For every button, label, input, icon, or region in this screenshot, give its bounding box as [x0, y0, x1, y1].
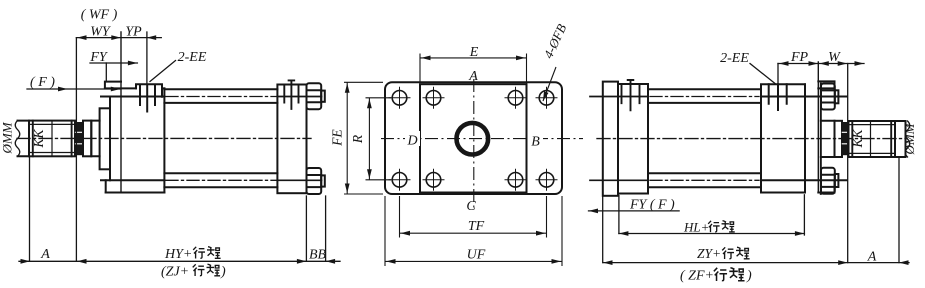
- rear port lines: [284, 80, 298, 109]
- extension line BB right: [325, 196, 327, 261]
- 2-EE leader: [750, 64, 775, 84]
- svg-text:KK: KK: [31, 129, 46, 149]
- main axis centerline: [17, 137, 311, 139]
- extension rear face: [602, 196, 604, 263]
- svg-text:WY: WY: [90, 25, 112, 40]
- svg-text:D: D: [406, 134, 417, 149]
- gland retainer plate: [100, 108, 110, 169]
- tie rod bottom lines: [164, 173, 277, 187]
- bottom tie rod stud: [835, 174, 839, 187]
- dim line E: [420, 57, 527, 59]
- svg-text:ØMM: ØMM: [902, 122, 917, 155]
- dim line FP/W: [778, 63, 864, 65]
- piston rod thread box KK: [849, 121, 896, 157]
- dim line R: [368, 98, 370, 180]
- top boss: [818, 81, 834, 88]
- flange front face line + extension above: [120, 32, 122, 193]
- svg-text:( WF ): ( WF ): [81, 8, 118, 23]
- svg-text:W: W: [828, 50, 841, 65]
- dim line TF: [400, 232, 547, 234]
- svg-text:ZY+: ZY+: [697, 246, 721, 261]
- svg-text:): ): [746, 269, 752, 284]
- thread minor lines: [29, 124, 75, 152]
- bottom tie rod nut: [821, 168, 835, 194]
- svg-text:BB: BB: [309, 248, 327, 263]
- svg-text:C: C: [466, 199, 476, 214]
- head square: [420, 84, 527, 192]
- rod tip box: [18, 121, 30, 157]
- svg-text:2-EE: 2-EE: [178, 50, 207, 65]
- rod tip chamfer marks: [905, 121, 910, 157]
- bolt hole bottom-left: [392, 173, 407, 188]
- thread end line: [870, 121, 872, 157]
- main axis centerline: [597, 138, 907, 140]
- bolt hole top-right: [539, 91, 554, 106]
- rod collar: [835, 121, 843, 157]
- extension line rod tip: [29, 157, 31, 261]
- head top line: [105, 87, 136, 89]
- svg-text:ØMM: ØMM: [0, 121, 15, 154]
- rod circle (thick ring): [457, 123, 489, 155]
- 2-EE leader line: [150, 61, 176, 82]
- FE extension lines: [344, 82, 383, 194]
- svg-text:HY+: HY+: [164, 247, 192, 262]
- tie rod bottom centerline: [166, 179, 276, 181]
- svg-text:KK: KK: [850, 129, 865, 149]
- bolt hole bottom-right: [539, 173, 554, 188]
- extension rod tip: [898, 158, 900, 263]
- head bottom line: [106, 192, 165, 194]
- svg-text:A: A: [40, 247, 50, 262]
- tie rod top lines: [648, 89, 761, 103]
- dim line FY(F): [589, 210, 680, 212]
- flange plate outline: [385, 82, 562, 194]
- locknut (hatched): [842, 123, 849, 155]
- svg-text:(ZJ+: (ZJ+: [161, 265, 189, 280]
- dim line ZY/A: [603, 262, 909, 264]
- gland retainer face: [820, 84, 822, 194]
- extension HL right: [803, 195, 805, 235]
- tie rod bottom lines: [648, 173, 761, 187]
- piston rod thread box KK: [29, 121, 75, 157]
- rear head: [618, 84, 648, 194]
- head right face: [163, 88, 165, 192]
- svg-text:R: R: [350, 134, 365, 144]
- svg-text:B: B: [531, 135, 540, 150]
- dim line HL: [619, 233, 805, 235]
- svg-text:( ZF+: ( ZF+: [680, 269, 714, 284]
- front port lines: [769, 84, 787, 110]
- E extension lines: [420, 54, 527, 85]
- top boss on gland: [105, 82, 121, 89]
- rear port lines: [622, 80, 640, 110]
- tie rod top centerline: [650, 96, 799, 98]
- FP extension at port center: [777, 64, 779, 84]
- dim line FY: [90, 62, 137, 64]
- bottom boss: [818, 180, 834, 192]
- svg-text:TF: TF: [468, 219, 485, 234]
- tie rod hole bottom-right: [508, 173, 523, 188]
- svg-text:A: A: [867, 250, 877, 265]
- rod tip box: [895, 121, 906, 157]
- rear head: [277, 85, 306, 194]
- thread end line: [51, 121, 53, 157]
- rear cap: [603, 82, 618, 196]
- plain rod section: [91, 121, 99, 157]
- vertical centerline: [473, 79, 475, 209]
- extension cap right: [618, 196, 620, 234]
- dim line WY/YP: [76, 37, 161, 39]
- tie rod top centerline: [166, 96, 276, 98]
- svg-text:E: E: [469, 45, 479, 60]
- left view arrows: [77, 35, 87, 40]
- dim line (F): [27, 88, 120, 90]
- tie rod hole top-right: [508, 91, 523, 106]
- rod collar: [83, 121, 91, 157]
- middle view arrows: [421, 56, 431, 61]
- tie rod bottom centerline: [650, 179, 799, 181]
- 4-ØFB leader: [543, 67, 556, 101]
- dim line UF: [385, 260, 562, 262]
- dim line FE: [346, 82, 348, 194]
- rod tip thread run-out wave: [15, 121, 20, 157]
- extension line BB left: [305, 196, 307, 261]
- front port 2-EE: [136, 84, 162, 111]
- horizontal centerline: [381, 138, 583, 140]
- top tie rod stud: [835, 90, 839, 103]
- plain rod section: [821, 121, 835, 157]
- flange verticals: [109, 97, 111, 181]
- TF extension lines: [400, 196, 547, 238]
- right view arrows: [779, 61, 789, 66]
- svg-text:2-EE: 2-EE: [720, 51, 749, 66]
- svg-text:( F ): ( F ): [30, 75, 55, 90]
- bolt hole top-left: [392, 91, 407, 106]
- svg-text:FE: FE: [330, 129, 345, 147]
- extension line at thread end (full height): [75, 38, 77, 262]
- svg-text:FY: FY: [89, 50, 109, 65]
- bottom tie rod stud: [321, 175, 325, 186]
- bottom boss: [105, 180, 107, 192]
- top tie rod stud: [321, 91, 325, 102]
- flange right face + extension above: [817, 62, 819, 193]
- svg-text:FP: FP: [790, 50, 809, 65]
- tie rod hole top-left: [426, 91, 441, 106]
- svg-text:FY ( F ): FY ( F ): [629, 198, 675, 213]
- head/flange junction: [804, 84, 806, 192]
- thread minor lines: [849, 125, 896, 154]
- flange horizontal lines: [101, 97, 164, 181]
- hole cross marks: [389, 87, 558, 191]
- tie rod lines through rear cap/head: [590, 97, 648, 181]
- bottom dim line: [19, 260, 340, 262]
- svg-text:): ): [220, 265, 226, 280]
- svg-text:UF: UF: [467, 248, 486, 263]
- locknut (hatched): [75, 123, 83, 155]
- top tie rod nut: [307, 83, 322, 109]
- tie rod hole bottom-left: [426, 173, 441, 188]
- bottom tie rod nut: [307, 168, 322, 194]
- FY extension tick: [105, 63, 107, 82]
- extension at thread start (full): [847, 64, 849, 263]
- tie rod top lines: [164, 89, 277, 103]
- R extension lines: [366, 98, 392, 180]
- top tie rod nut: [821, 84, 835, 110]
- UF extension lines: [385, 196, 562, 266]
- extension line port center: [146, 32, 148, 84]
- svg-text:A: A: [468, 69, 478, 84]
- flange lines: [761, 97, 847, 181]
- front head: [761, 84, 805, 192]
- svg-text:HL+: HL+: [683, 220, 709, 235]
- tie rod lines through rear head: [277, 97, 321, 181]
- svg-text:YP: YP: [125, 25, 142, 40]
